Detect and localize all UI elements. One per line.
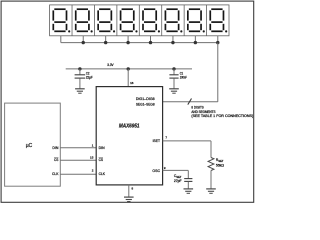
wire: digit 5 connection stub	[150, 36, 152, 43]
svg-text:(SEE TABLE 1 FOR CONNECTIONS): (SEE TABLE 1 FOR CONNECTIONS)	[191, 114, 253, 118]
svg-text:22µF: 22µF	[86, 76, 93, 80]
wire: digit 6 connection stub	[172, 36, 174, 43]
svg-text:3.3V: 3.3V	[107, 63, 114, 67]
svg-text:16: 16	[130, 81, 134, 85]
svg-text:7: 7	[165, 136, 167, 140]
display digit 1 (figure 8 + decimal point)	[53, 9, 66, 31]
wire down to RSET	[210, 141, 212, 158]
svg-text:OSC: OSC	[152, 168, 160, 173]
svg-text:CLK: CLK	[99, 171, 106, 176]
wire: digit 8 connection stub	[217, 36, 219, 43]
node 3.3V supply rail	[66, 63, 192, 69]
svg-text:8: 8	[132, 187, 134, 191]
capacitor C1 100nF	[169, 69, 187, 89]
display digit 2 (figure 8 + decimal point)	[76, 9, 89, 31]
display digit 8 (figure 8 + decimal point)	[210, 9, 223, 31]
wire: V+ pin 16 to rail	[127, 69, 129, 87]
junction dot on display bus (digit 5)	[149, 41, 152, 44]
svg-text:RSET: RSET	[216, 158, 224, 163]
svg-text:ISET: ISET	[153, 138, 161, 143]
wire: digit 7 connection stub	[194, 36, 196, 43]
wire ISET pin 7	[163, 140, 211, 142]
wire: digit 1 connection stub	[60, 36, 62, 43]
annotation: 8 digits and segments	[191, 106, 253, 119]
wire GND pin 8	[128, 185, 130, 197]
ground for GND pin	[124, 197, 134, 201]
junction dot on display bus (digit 7)	[194, 41, 197, 44]
svg-text:100nF: 100nF	[180, 76, 187, 80]
wire: digit 2 connection stub	[82, 36, 84, 43]
svg-text:µC: µC	[26, 143, 33, 149]
svg-text:DIN: DIN	[99, 145, 105, 150]
junction dot on display bus (digit 3)	[104, 41, 107, 44]
ground for C2	[75, 89, 85, 93]
svg-text:2: 2	[92, 169, 94, 173]
wire: bus horizontal into DIG/SEG pins	[163, 101, 218, 103]
bus slash (multi-conductor mark)	[188, 99, 192, 105]
junction dot C2 on rail	[78, 67, 81, 70]
svg-text:56kΩ: 56kΩ	[216, 163, 224, 167]
junction dot V+ on rail	[127, 67, 130, 70]
display digit 4 (figure 8 + decimal point)	[121, 9, 134, 31]
wire: digit 3 connection stub	[105, 36, 107, 43]
svg-text:AND SEGMENTS: AND SEGMENTS	[191, 110, 216, 114]
wire CLK net	[60, 173, 96, 175]
junction dot on display bus (digit 6)	[171, 41, 174, 44]
junction dot on display bus (digit 2)	[82, 41, 85, 44]
svg-text:9: 9	[164, 166, 166, 170]
resistor RSET 56k	[208, 158, 224, 171]
8-digit seven-segment LED display module	[50, 5, 229, 36]
ground for RSET	[206, 189, 216, 193]
junction dot at display bus corner	[216, 41, 219, 44]
svg-text:CLK: CLK	[52, 171, 59, 176]
ground for CSET	[184, 189, 194, 193]
wire: bus vertical down right side	[217, 43, 219, 102]
display digit 7 (figure 8 + decimal point)	[188, 9, 201, 31]
svg-text:15: 15	[90, 156, 94, 160]
svg-text:MAX6951: MAX6951	[119, 124, 140, 130]
junction dot C1 on rail	[172, 67, 175, 70]
display digit 6 (figure 8 + decimal point)	[165, 9, 178, 31]
wire CS net	[60, 159, 96, 161]
svg-text:DIG1–DIG8: DIG1–DIG8	[136, 96, 155, 101]
capacitor C2 22uF	[75, 69, 93, 89]
junction dot on display bus (digit 4)	[126, 41, 129, 44]
microcontroller block	[5, 103, 61, 186]
svg-text:27pF: 27pF	[174, 179, 182, 183]
svg-text:1: 1	[92, 143, 94, 147]
display digit 3 (figure 8 + decimal point)	[98, 9, 111, 31]
wire OSC pin 9	[163, 169, 189, 171]
svg-text:DIN: DIN	[52, 145, 58, 150]
svg-text:SEG1–SEG8: SEG1–SEG8	[136, 101, 155, 106]
wire RSET to ground	[210, 171, 212, 189]
ground for C1	[169, 89, 179, 93]
wire DIN net	[60, 147, 96, 149]
capacitor CSET 27pF	[174, 170, 193, 188]
IC U1 MAX6951 LED display driver	[96, 87, 162, 185]
wire: display bus horizontal	[61, 42, 218, 44]
display digit 5 (figure 8 + decimal point)	[143, 9, 156, 31]
wire: digit 4 connection stub	[127, 36, 129, 43]
